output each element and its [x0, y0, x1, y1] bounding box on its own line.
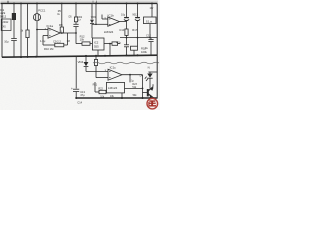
wire C5 down	[137, 21, 139, 38]
resistor R2 on x14	[12, 13, 15, 19]
wire U3 ground stub	[121, 93, 123, 98]
microphone PCC1 plates	[35, 14, 37, 20]
wire x142.5 down	[142, 75, 144, 98]
node dot x96	[95, 2, 97, 4]
resistor R18 on x137 lower	[137, 38, 139, 47]
capacitor C11 on x126 lower	[126, 38, 128, 45]
node dot out join	[142, 88, 144, 90]
diode VD3	[90, 20, 94, 23]
capacitor C13 plates	[73, 88, 79, 90]
wire V+ top rail	[1, 2, 158, 4]
wire x130 down to U3	[129, 75, 131, 83]
node dot mic mid	[36, 29, 38, 31]
svg-text:IC1a: IC1a	[47, 24, 54, 28]
op-amp input marks IC1a	[49, 29, 51, 31]
wire S1 down	[149, 24, 151, 38]
wire right frame	[156, 4, 158, 98]
svg-text:9012: 9012	[0, 14, 7, 18]
wire stub above rail	[7, 1, 9, 4]
wire IC2 bottom to rail	[97, 50, 99, 56]
wire IC2 output	[104, 43, 112, 45]
svg-text:R17: R17	[132, 28, 137, 32]
svg-text:PCC1: PCC1	[38, 8, 46, 12]
node dot output IC1a	[61, 32, 63, 34]
svg-text:D4: D4	[140, 73, 144, 77]
wire feedback bottom	[43, 44, 55, 46]
wire vertical x126	[126, 3, 128, 17]
node dot x76	[75, 2, 77, 4]
svg-text:10μ: 10μ	[121, 14, 126, 17]
resistor R16	[112, 42, 118, 45]
wire C4 down	[126, 21, 128, 29]
top border frame line	[1, 0, 159, 2]
capacitor C8 plates	[73, 23, 78, 25]
wire middle ground rail	[2, 55, 157, 57]
LED arrows	[145, 77, 147, 79]
wire R22 to U3	[105, 91, 108, 93]
diode VD4	[84, 62, 89, 66]
wire IC1a inputs	[37, 29, 48, 31]
svg-text:10k: 10k	[80, 38, 85, 42]
wire VD3 lower	[91, 24, 93, 38]
node dot C13 rail	[75, 97, 77, 99]
node dot rail mid 96	[95, 55, 97, 57]
node dot x28 bottom	[27, 56, 29, 58]
wire R12 to IC2	[90, 43, 92, 45]
transistor VT5 body	[147, 89, 149, 96]
wire VD4 vertical	[85, 57, 87, 63]
IC U2 box	[92, 38, 104, 50]
svg-text:47μ: 47μ	[80, 93, 85, 97]
svg-text:1W: 1W	[150, 7, 154, 10]
wire C13 to rail	[75, 92, 77, 98]
node dot x76 output join	[75, 32, 77, 34]
wire tick above rail x96	[96, 1, 98, 4]
wire IC1c output	[122, 74, 143, 76]
svg-text:4.7μ: 4.7μ	[116, 41, 122, 45]
wire vertical x28 lower	[27, 38, 29, 57]
node dot x143 rail	[142, 97, 144, 99]
svg-text:100k: 100k	[141, 50, 147, 54]
IC U3 LM124 box	[107, 82, 125, 93]
node dot rail mid 137	[137, 54, 139, 56]
switch S1 box	[144, 17, 157, 24]
capacitor C2 plates	[11, 38, 17, 40]
node dot y37 a	[126, 37, 128, 39]
node dot x130 on output	[129, 74, 131, 76]
svg-text:VD3: VD3	[91, 15, 97, 19]
svg-text:C13: C13	[80, 90, 85, 94]
svg-text:9013: 9013	[132, 14, 138, 17]
svg-text:S1.a: S1.a	[146, 19, 152, 23]
resistor R3 220k	[26, 30, 29, 38]
socket XS box	[1, 19, 11, 31]
red stamp seal	[147, 98, 158, 109]
wire tick above rail x93	[92, 1, 94, 4]
resistor R10 1M	[55, 43, 64, 47]
svg-text:555: 555	[94, 44, 99, 48]
wire to IC1c input1	[86, 71, 108, 73]
svg-text:+: +	[71, 87, 73, 91]
wire vertical x92 diode VD3	[91, 3, 93, 19]
wire feedback left vertical	[42, 36, 44, 46]
svg-text:C10: C10	[119, 28, 124, 32]
wire U3 left	[95, 91, 99, 93]
wire left frame	[1, 3, 3, 57]
transistor VT3	[135, 17, 140, 19]
node dot x23	[20, 2, 22, 4]
wire bottom rail	[76, 97, 158, 99]
svg-text:C14: C14	[77, 101, 82, 104]
node dot y37 c	[149, 37, 151, 39]
wire x96 to IC1c input2	[95, 57, 97, 60]
svg-text:10μ: 10μ	[4, 40, 9, 44]
wire vertical x23	[20, 3, 22, 57]
node dot x23 bottom	[20, 56, 22, 58]
torn paper wavy line	[93, 62, 159, 64]
wire IC1b inputs	[102, 18, 108, 20]
wire horizontal y37.6	[120, 37, 157, 39]
node dot x63	[61, 3, 63, 5]
wire feedback right	[64, 44, 68, 46]
svg-text:R9: R9	[59, 23, 63, 27]
resistor R22	[99, 90, 106, 93]
wire IC1b output	[120, 21, 127, 23]
node dot x14	[13, 2, 15, 4]
op-amp IC1c	[108, 69, 122, 80]
microphone PCC1 circle	[33, 14, 40, 21]
wire R21 vertical	[94, 82, 96, 92]
capacitor C12 on x151	[150, 38, 152, 40]
resistor R6	[74, 17, 77, 22]
node dot x37	[36, 2, 38, 4]
op-amp input marks IC1b	[109, 18, 111, 20]
svg-text:I-9012: I-9012	[2, 22, 9, 24]
svg-text:LM324: LM324	[104, 30, 114, 34]
wire vertical x76 lower	[75, 27, 77, 44]
svg-text:IC1c: IC1c	[110, 66, 117, 70]
op-amp IC1a	[48, 28, 60, 38]
wire vertical x96	[95, 3, 97, 24]
wire vertical mic lower	[36, 21, 38, 57]
svg-text:C12: C12	[146, 33, 151, 37]
wire VD4 lower	[85, 67, 87, 72]
node dot x152	[151, 2, 153, 4]
node dot rail mid 126	[126, 54, 128, 56]
paper texture	[0, 0, 160, 110]
op-amp input marks IC1c	[109, 71, 111, 73]
transistor VT2	[124, 17, 129, 19]
wire IC1a output	[60, 32, 76, 34]
svg-text:R10 1M: R10 1M	[44, 47, 54, 51]
svg-text:R21: R21	[93, 83, 98, 86]
node dot x110	[109, 43, 111, 45]
node dot rail mid 87	[85, 55, 87, 57]
wire U3 right	[125, 87, 143, 89]
node dot U3 gnd	[121, 97, 123, 99]
wire LED bottom	[149, 78, 151, 88]
svg-text:XS: XS	[3, 27, 7, 29]
wire x110 down	[109, 44, 111, 56]
node dot x137	[137, 2, 139, 4]
node dot rail mid 105	[104, 55, 106, 57]
node dot y37 b	[137, 37, 139, 39]
wire vertical x152	[151, 3, 153, 17]
wire section divider vertical	[75, 57, 77, 89]
resistor R12	[82, 42, 90, 45]
wire R16 right	[118, 43, 120, 45]
LED VD5	[147, 74, 152, 78]
node dot x126	[126, 2, 128, 4]
node dot mic bottom	[35, 56, 37, 58]
wire into R12	[76, 43, 82, 45]
svg-text:LM124: LM124	[108, 86, 118, 90]
op-amp IC1b	[108, 17, 120, 26]
svg-text:IC1b: IC1b	[108, 13, 115, 17]
svg-text:N: N	[148, 66, 150, 70]
wire vertical x137	[137, 3, 139, 17]
wire vertical mic upper	[36, 3, 38, 13]
svg-text:C9 2.2: C9 2.2	[53, 40, 61, 44]
wire LED top	[148, 71, 157, 73]
wire vertical x28	[27, 3, 29, 30]
wire vertical x63 R9	[61, 3, 63, 27]
svg-text:R22: R22	[98, 88, 103, 91]
resistor R9	[60, 27, 63, 33]
svg-text:VD4: VD4	[78, 60, 84, 64]
resistor R17a	[125, 29, 128, 35]
wire vertical x14 lower	[13, 41, 15, 57]
wire vertical x14 upper	[13, 3, 15, 38]
svg-text:1.0μ: 1.0μ	[40, 39, 46, 43]
